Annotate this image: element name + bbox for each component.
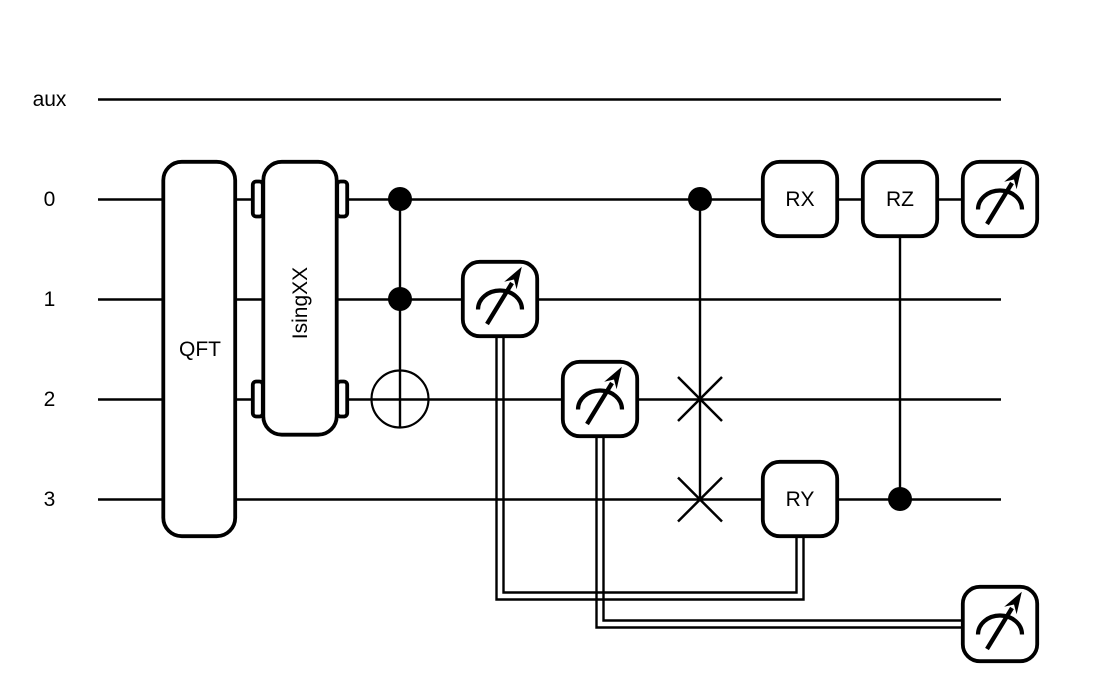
svg-text:RY: RY	[786, 488, 815, 511]
svg-text:RX: RX	[785, 188, 814, 211]
svg-text:0: 0	[44, 188, 56, 211]
svg-text:3: 3	[44, 488, 56, 511]
svg-text:aux: aux	[33, 88, 67, 111]
svg-text:QFT: QFT	[179, 338, 221, 361]
svg-text:RZ: RZ	[886, 188, 914, 211]
svg-text:IsingXX: IsingXX	[289, 267, 312, 339]
svg-text:2: 2	[44, 388, 56, 411]
svg-text:1: 1	[44, 288, 56, 311]
